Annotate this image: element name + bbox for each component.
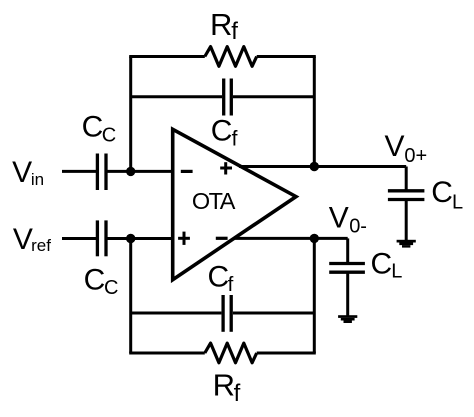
svg-text:R: R [210, 7, 232, 42]
wire bottom-right feedback vertical [313, 238, 316, 353]
svg-text:C: C [84, 263, 106, 296]
node bottom output junction dot [310, 234, 319, 243]
svg-text:C: C [104, 277, 118, 299]
svg-text:R: R [213, 368, 235, 403]
wire bottom Cf rail right [233, 312, 314, 315]
wire top Cf rail left [131, 95, 222, 98]
svg-text:V: V [13, 223, 33, 256]
wire top-right feedback vertical [313, 57, 316, 167]
svg-text:f: f [231, 18, 238, 45]
wire bottom output to CL [346, 238, 349, 263]
wire top feedback top rail right [257, 55, 316, 58]
op-amp output minus sign [216, 237, 228, 240]
ground symbol bottom CL [338, 315, 357, 323]
wire bottom output [234, 237, 348, 240]
wire Vin input to coupling cap [62, 170, 96, 173]
node top input junction dot [126, 167, 135, 176]
wire CL bottom to ground [346, 272, 349, 316]
svg-text:f: f [234, 380, 241, 407]
wire cap to inverting input node [107, 170, 172, 173]
svg-text:C: C [82, 111, 104, 144]
wire bottom feedback bottom rail left [129, 352, 205, 355]
wire bottom-left feedback vertical [129, 239, 132, 354]
svg-text:C: C [431, 176, 453, 209]
op-amp input plus sign [178, 237, 190, 240]
wire bottom Cf rail left [131, 312, 222, 315]
wire top output to CL [405, 167, 408, 191]
wire cap to non-inverting input node [107, 237, 172, 240]
capacitor Cf top plates [222, 79, 225, 116]
svg-text:V: V [12, 156, 32, 189]
svg-text:f: f [232, 128, 238, 151]
svg-text:L: L [452, 191, 463, 213]
svg-text:in: in [31, 170, 44, 189]
resistor Rf bottom zigzag [205, 343, 257, 363]
svg-text:V: V [385, 130, 405, 163]
ground symbol top CL [397, 240, 416, 248]
svg-text:ref: ref [31, 236, 51, 255]
op-amp output plus sign [220, 167, 232, 170]
op-amp U1 OTA triangle [173, 129, 296, 279]
node bottom input junction dot [126, 234, 135, 243]
wire top Cf rail right [233, 95, 314, 98]
capacitor CC bottom plates [96, 220, 99, 256]
svg-text:f: f [228, 273, 234, 296]
svg-text:C: C [208, 261, 230, 294]
svg-text:C: C [102, 125, 116, 147]
svg-text:V: V [329, 202, 349, 235]
wire Vref input to coupling cap [62, 237, 96, 240]
node top output junction dot [310, 162, 319, 171]
svg-text:OTA: OTA [192, 188, 236, 214]
svg-text:0-: 0- [349, 216, 367, 238]
svg-text:C: C [371, 247, 393, 280]
wire top feedback top rail left [129, 55, 205, 58]
wire top-left feedback vertical [129, 57, 132, 172]
wire bottom feedback bottom rail right [257, 352, 316, 355]
wire CL top to ground [405, 200, 408, 241]
resistor Rf top zigzag [205, 47, 257, 67]
svg-text:L: L [391, 261, 402, 283]
capacitor Cf bottom plates [221, 295, 224, 332]
capacitor CL top plates [388, 189, 425, 192]
svg-text:C: C [211, 114, 233, 147]
op-amp input minus sign [181, 170, 193, 173]
capacitor CL bottom plates [329, 262, 365, 265]
capacitor CC top plates [96, 154, 99, 191]
svg-text:0+: 0+ [404, 145, 427, 167]
wire top output [239, 165, 406, 168]
